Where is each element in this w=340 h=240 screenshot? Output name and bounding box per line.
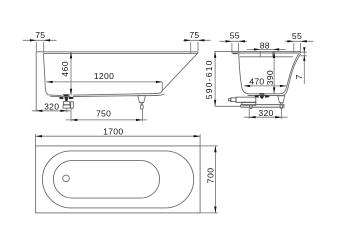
drain top bar [63, 95, 69, 97]
svg-text:460: 460 [60, 61, 70, 77]
wire outer bottom [248, 95, 284, 97]
drain top bar dark mark [64, 95, 68, 96]
arrows 55 left [226, 40, 245, 42]
arrows 470 [244, 85, 287, 87]
plan drain circle [63, 175, 70, 182]
dim 590-610 bottom ext [215, 105, 240, 107]
arrows 390 [273, 52, 275, 94]
foot pad right capsule [280, 105, 283, 109]
arrows 7 [303, 47, 305, 61]
foot trapezoid right [278, 96, 285, 103]
drain body box upper [64, 102, 70, 105]
interior far edge line [240, 56, 293, 58]
wire interior right diagonal [158, 53, 198, 93]
wire interior bottom [49, 94, 158, 96]
rim right edge box verticals [191, 52, 198, 54]
wire rim left edge [231, 51, 233, 53]
dim 75 left: line [23, 39, 57, 41]
dim 1200 right ext [161, 82, 163, 92]
trap pipe end [229, 99, 231, 101]
svg-text:700: 700 [205, 167, 215, 183]
dim 470 line [244, 85, 287, 87]
arrows 590-610 [214, 51, 216, 106]
wire right outer wall [283, 54, 300, 96]
wire rim right edge [299, 51, 301, 53]
foot trapezoid [138, 96, 146, 103]
trap pipe [236, 97, 256, 102]
wire interior left wall [43, 54, 49, 95]
arrows 88 [254, 48, 279, 50]
dim 88 line [247, 48, 286, 50]
dim 7 ticks [300, 52, 306, 56]
svg-text:750: 750 [96, 108, 111, 118]
drain funnel dark [64, 97, 68, 101]
left foot capsule [71, 102, 74, 109]
wire left outer wall [35, 52, 37, 112]
foot pad capsule [140, 105, 143, 109]
svg-text:75: 75 [189, 30, 199, 40]
end drain top bar dark [259, 93, 264, 95]
dim 55 right line [285, 40, 313, 42]
wire rim top line [36, 51, 198, 53]
arrows 1200 [46, 81, 162, 83]
dim 320 bottom line [244, 116, 288, 118]
svg-text:55: 55 [292, 31, 302, 41]
svg-text:470: 470 [249, 76, 264, 86]
arrows 1700 [36, 135, 201, 137]
arrows 320 [36, 110, 67, 112]
trap pipe cap [231, 98, 236, 102]
dim 55 left exts [232, 43, 239, 53]
foot neck [141, 103, 142, 105]
dim 55 right exts [294, 43, 301, 53]
dim 750 line [66, 119, 148, 121]
dim 590-610 line [214, 51, 216, 106]
arrows 75 left (outside, pointing inward) [30, 39, 50, 41]
drain strainer dark wings [59, 97, 73, 100]
svg-text:7: 7 [294, 74, 304, 79]
dim 700 exts [200, 146, 218, 213]
dim 320 bottom exts [249, 108, 281, 119]
trap step [242, 102, 256, 105]
dim 75 right: line [183, 39, 210, 41]
svg-text:390: 390 [265, 70, 275, 85]
dim 460 line [70, 52, 72, 95]
svg-text:55: 55 [230, 31, 240, 41]
svg-text:320: 320 [44, 102, 59, 112]
foot right (side view) [138, 96, 146, 110]
wire rim inner line [44, 52, 198, 54]
svg-text:590-610: 590-610 [204, 59, 214, 99]
base bar [240, 105, 284, 108]
under-rim marks left [233, 52, 238, 54]
svg-text:88: 88 [260, 41, 270, 51]
svg-text:1200: 1200 [94, 71, 114, 81]
wire right interior wall [281, 54, 299, 94]
drain body box lower [63, 105, 70, 108]
wire outer bottom [50, 94, 165, 97]
dim 390 line [273, 52, 275, 94]
foot pad left capsule [250, 105, 253, 109]
plan outer rect [36, 146, 201, 213]
dim 7 line [303, 48, 305, 85]
dim 75 left ext lines [36, 42, 43, 53]
foot neck right [281, 103, 283, 105]
wire left interior wall [239, 53, 249, 94]
svg-text:320: 320 [258, 108, 273, 118]
dim 750 exts [71, 109, 142, 122]
dim 700 line [214, 146, 216, 213]
arrows 320 bottom [249, 116, 281, 118]
wire rim top line (with ext to 590-610) [215, 50, 301, 52]
svg-text:75: 75 [35, 30, 45, 40]
dim 75 right ext lines [191, 42, 198, 51]
end view drain / trap [229, 97, 284, 107]
wire interior bottom [249, 93, 281, 95]
overflow box (88) [260, 51, 273, 56]
end drain strainer dark wings [255, 95, 270, 98]
dim 55 left line [219, 40, 247, 42]
arrows 460 (inside, pointing outward) [70, 52, 72, 95]
dim 1700 exts [36, 134, 201, 146]
dim 1200 line [46, 81, 162, 83]
drain assembly side view [63, 95, 73, 109]
arrows 75 right [184, 39, 204, 41]
arrows 55 right [287, 40, 306, 42]
arrows 700 [214, 146, 216, 213]
plan middle rounded shape [42, 151, 193, 208]
dim 320 right ext (drain centre) [66, 108, 68, 113]
plan inner rounded shape [53, 160, 159, 198]
end view right foot [250, 96, 285, 109]
end drain funnel dark [260, 95, 265, 98]
wire rim inner line [232, 52, 301, 54]
dim 1700 line [36, 135, 201, 137]
dim 320 line [32, 110, 71, 112]
svg-text:1700: 1700 [103, 127, 123, 137]
arrows 750 [71, 119, 142, 121]
